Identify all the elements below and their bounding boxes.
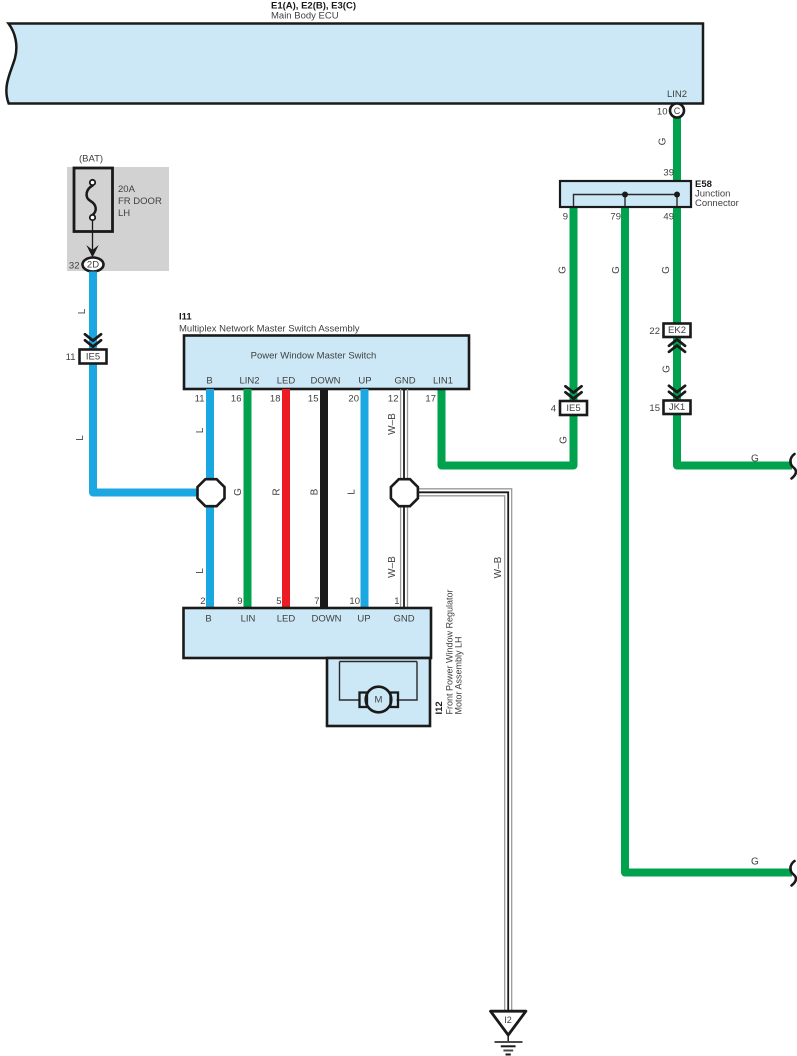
svg-text:32: 32	[69, 261, 80, 272]
fuse block gray box	[67, 167, 169, 271]
svg-text:C: C	[674, 106, 681, 116]
svg-text:9: 9	[563, 212, 568, 223]
svg-text:15: 15	[308, 394, 319, 405]
svg-text:17: 17	[425, 394, 436, 405]
torn edge squiggle upper	[790, 454, 796, 479]
svg-text:20A: 20A	[118, 184, 136, 195]
wire B DOWN column	[320, 389, 328, 608]
svg-text:Multiplex Network Master Switc: Multiplex Network Master Switch Assembly	[179, 324, 360, 335]
svg-text:11: 11	[66, 352, 76, 363]
svg-text:L: L	[77, 308, 88, 314]
svg-text:UP: UP	[357, 614, 370, 625]
wire L UP column	[361, 389, 369, 608]
chevron up below EK2	[669, 340, 685, 352]
wire R LED column	[282, 389, 290, 608]
junction connector E58	[560, 181, 691, 207]
svg-text:4: 4	[551, 404, 556, 415]
svg-text:L: L	[195, 568, 206, 574]
svg-text:2: 2	[200, 596, 205, 607]
svg-text:2D: 2D	[87, 260, 99, 271]
motor M	[360, 687, 399, 713]
svg-text:Power Window Master Switch: Power Window Master Switch	[251, 351, 377, 362]
svg-text:R: R	[272, 488, 283, 495]
ground I2	[491, 1011, 526, 1054]
wire L from 2D to junction	[93, 272, 211, 493]
svg-text:UP: UP	[358, 376, 371, 387]
svg-text:LIN: LIN	[241, 614, 256, 625]
svg-text:G: G	[751, 454, 759, 465]
connector 4 IE5	[551, 401, 587, 415]
chevron down above JK1	[669, 386, 685, 398]
I12 connector box	[184, 608, 432, 658]
svg-text:IE5: IE5	[566, 403, 580, 414]
svg-text:B: B	[205, 614, 211, 625]
svg-text:9: 9	[237, 596, 242, 607]
svg-text:G: G	[233, 488, 244, 496]
svg-text:LED: LED	[277, 614, 296, 625]
svg-text:GND: GND	[393, 614, 414, 625]
chevron down above 11 IE5	[85, 334, 101, 346]
wire G E58 pin 79 down to right edge	[625, 207, 792, 873]
svg-text:16: 16	[231, 394, 242, 405]
svg-text:G: G	[661, 266, 672, 274]
svg-text:M: M	[375, 695, 383, 706]
wire L B column	[206, 389, 214, 608]
wire W-B branch from octagon to ground	[418, 489, 512, 1011]
svg-text:20: 20	[348, 394, 359, 405]
svg-text:5: 5	[276, 596, 281, 607]
junction octagon on B wire	[198, 479, 225, 506]
connector 22 EK2	[649, 324, 690, 338]
junction octagon on GND wire	[391, 479, 418, 506]
connector 11 IE5	[66, 350, 107, 364]
svg-text:G: G	[558, 266, 569, 274]
wire G LIN2 column	[244, 389, 252, 608]
svg-text:7: 7	[314, 596, 319, 607]
svg-text:Connector: Connector	[695, 198, 739, 209]
svg-text:LH: LH	[118, 208, 130, 219]
svg-text:1: 1	[394, 596, 399, 607]
svg-text:I2: I2	[504, 1015, 512, 1025]
svg-text:22: 22	[649, 326, 660, 337]
svg-text:IE5: IE5	[86, 351, 100, 362]
svg-text:G: G	[658, 137, 669, 145]
svg-text:L: L	[195, 427, 206, 433]
fuse 20A FR DOOR LH	[74, 168, 113, 232]
svg-text:LED: LED	[277, 376, 296, 387]
svg-text:G: G	[751, 857, 759, 868]
svg-text:79: 79	[610, 212, 621, 223]
wire G E58 pin 49 down to right edge	[677, 207, 792, 466]
chevron down above 4 IE5	[566, 386, 582, 398]
svg-text:L: L	[347, 489, 358, 495]
torn edge squiggle lower	[790, 861, 796, 886]
connector 15 JK1	[649, 401, 690, 415]
svg-text:L: L	[75, 435, 86, 441]
wire fuse to 2D	[92, 220, 94, 250]
svg-text:12: 12	[388, 394, 399, 405]
wire W-B GND column	[401, 389, 408, 608]
svg-text:15: 15	[649, 403, 660, 414]
svg-text:LIN2: LIN2	[239, 376, 259, 387]
svg-text:DOWN: DOWN	[311, 614, 341, 625]
svg-text:W–B: W–B	[387, 413, 398, 435]
svg-text:LIN1: LIN1	[433, 376, 453, 387]
svg-text:Main Body ECU: Main Body ECU	[271, 11, 339, 22]
svg-text:G: G	[662, 365, 673, 373]
svg-text:10: 10	[349, 596, 360, 607]
svg-text:GND: GND	[394, 376, 415, 387]
svg-text:I11: I11	[179, 312, 192, 323]
svg-text:(BAT): (BAT)	[79, 154, 103, 165]
motor inner wires	[340, 662, 418, 701]
svg-text:10: 10	[657, 107, 668, 118]
wire G E58 pin 9 down joining LIN1	[442, 207, 574, 466]
svg-text:B: B	[310, 488, 321, 495]
svg-text:B: B	[206, 376, 212, 387]
ECU box Main Body ECU	[6, 24, 703, 104]
I12 motor box	[327, 658, 430, 726]
svg-text:G: G	[559, 436, 570, 444]
svg-text:EK2: EK2	[668, 325, 686, 336]
svg-text:G: G	[611, 266, 622, 274]
I11 box Power Window Master Switch	[184, 336, 469, 390]
arrow head	[86, 245, 98, 258]
svg-text:11: 11	[195, 394, 205, 405]
svg-text:39: 39	[663, 168, 674, 179]
pin 10 connector C	[657, 104, 684, 118]
svg-text:W–B: W–B	[387, 556, 398, 578]
svg-text:JK1: JK1	[669, 402, 685, 413]
svg-text:Motor Assembly LH: Motor Assembly LH	[453, 636, 463, 714]
pin 32 connector 2D	[69, 258, 104, 272]
svg-text:DOWN: DOWN	[310, 376, 340, 387]
wire G from pin 10 to E58 pin 39	[673, 115, 681, 181]
svg-text:LIN2: LIN2	[667, 89, 687, 100]
svg-text:W–B: W–B	[493, 556, 504, 578]
svg-text:49: 49	[663, 212, 674, 223]
svg-text:18: 18	[270, 394, 281, 405]
svg-text:FR DOOR: FR DOOR	[118, 196, 162, 207]
